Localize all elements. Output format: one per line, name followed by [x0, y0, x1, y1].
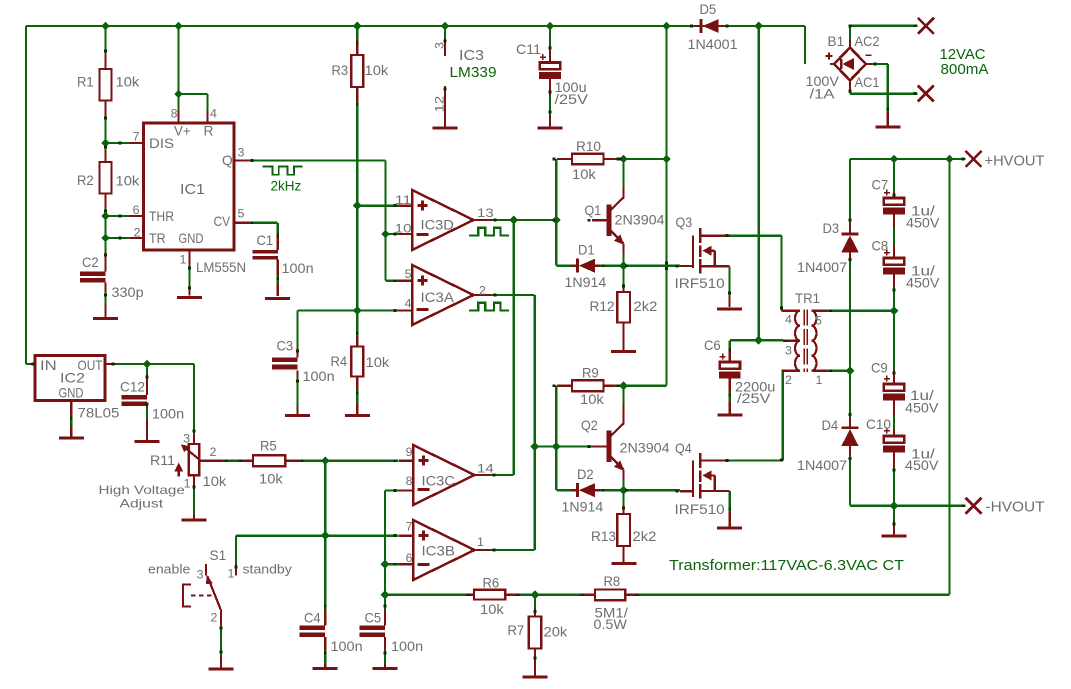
- svg-text:10k: 10k: [580, 392, 604, 407]
- svg-text:IC3D: IC3D: [421, 218, 454, 234]
- svg-text:/25V: /25V: [555, 92, 589, 107]
- svg-text:C2: C2: [82, 255, 99, 270]
- svg-text:/25V: /25V: [737, 391, 771, 406]
- svg-text:100n: 100n: [152, 407, 184, 422]
- svg-text:IRF510: IRF510: [675, 502, 725, 517]
- svg-text:R4: R4: [331, 354, 348, 369]
- svg-text:100n: 100n: [331, 639, 363, 654]
- svg-text:IC3B: IC3B: [422, 544, 455, 560]
- svg-text:7: 7: [133, 130, 140, 144]
- svg-text:standby: standby: [243, 562, 293, 577]
- svg-text:2kHz: 2kHz: [271, 179, 302, 194]
- svg-text:2: 2: [785, 373, 792, 387]
- svg-text:TR: TR: [149, 231, 166, 246]
- svg-text:Transformer:117VAC-6.3VAC CT: Transformer:117VAC-6.3VAC CT: [669, 558, 904, 574]
- svg-text:GND: GND: [179, 231, 204, 246]
- svg-text:R2: R2: [77, 173, 94, 188]
- svg-text:IRF510: IRF510: [675, 276, 725, 291]
- svg-text:12VAC: 12VAC: [940, 47, 986, 63]
- svg-text:Q4: Q4: [675, 441, 692, 456]
- svg-text:3: 3: [238, 146, 245, 160]
- svg-text:B1: B1: [828, 34, 845, 49]
- svg-text:10k: 10k: [572, 167, 596, 182]
- svg-text:LM555N: LM555N: [196, 260, 246, 276]
- svg-text:800mA: 800mA: [941, 62, 989, 78]
- svg-text:10k: 10k: [116, 75, 140, 90]
- svg-text:10: 10: [395, 222, 412, 236]
- svg-text:450V: 450V: [906, 276, 940, 291]
- svg-text:High Voltage: High Voltage: [99, 484, 185, 497]
- svg-text:D4: D4: [822, 418, 839, 433]
- svg-text:R10: R10: [576, 139, 601, 154]
- svg-text:IC1: IC1: [180, 182, 205, 198]
- svg-text:R13: R13: [591, 529, 616, 544]
- svg-text:AC1: AC1: [855, 75, 880, 90]
- svg-text:11: 11: [395, 193, 412, 207]
- svg-text:5: 5: [815, 314, 822, 328]
- svg-text:C11: C11: [516, 42, 541, 57]
- svg-text:-HVOUT: -HVOUT: [986, 500, 1045, 516]
- svg-text:R3: R3: [332, 63, 349, 78]
- svg-text:2k2: 2k2: [634, 299, 658, 314]
- svg-text:IC3C: IC3C: [422, 474, 455, 490]
- svg-text:5: 5: [238, 207, 245, 221]
- svg-text:20k: 20k: [544, 625, 568, 640]
- svg-text:3: 3: [183, 432, 190, 446]
- svg-text:CV: CV: [214, 214, 231, 229]
- svg-text:LM339: LM339: [450, 65, 497, 81]
- svg-text:3: 3: [785, 344, 792, 358]
- svg-text:100n: 100n: [282, 261, 314, 276]
- svg-text:Q: Q: [222, 153, 233, 168]
- svg-text:AC2: AC2: [855, 34, 880, 49]
- svg-text:IC3A: IC3A: [421, 290, 455, 306]
- svg-text:enable: enable: [148, 562, 190, 577]
- svg-text:13: 13: [477, 206, 494, 220]
- svg-text:Adjust: Adjust: [120, 498, 165, 511]
- svg-text:1N4001: 1N4001: [688, 37, 738, 52]
- svg-text:0.5W: 0.5W: [594, 617, 627, 632]
- svg-text:IN: IN: [40, 358, 57, 373]
- svg-text:IC2: IC2: [60, 371, 85, 386]
- svg-text:C1: C1: [257, 233, 274, 248]
- svg-text:DIS: DIS: [149, 136, 174, 151]
- svg-text:C9: C9: [871, 361, 888, 376]
- svg-text:R9: R9: [582, 366, 599, 381]
- svg-text:D1: D1: [578, 243, 595, 258]
- svg-text:C5: C5: [365, 611, 382, 626]
- svg-text:3: 3: [197, 568, 204, 582]
- svg-text:THR: THR: [149, 209, 174, 224]
- svg-text:4: 4: [210, 107, 217, 121]
- svg-text:10k: 10k: [259, 472, 283, 487]
- svg-text:1: 1: [816, 373, 823, 387]
- svg-text:10k: 10k: [116, 174, 140, 189]
- svg-text:1N4007: 1N4007: [797, 458, 847, 473]
- svg-text:2k2: 2k2: [633, 529, 657, 544]
- svg-text:12: 12: [433, 96, 447, 113]
- svg-text:2N3904: 2N3904: [620, 441, 670, 456]
- svg-text:Q2: Q2: [581, 418, 598, 433]
- svg-text:330p: 330p: [112, 285, 144, 300]
- svg-text:R8: R8: [604, 574, 621, 589]
- svg-text:8: 8: [406, 474, 413, 488]
- svg-text:C3: C3: [277, 339, 294, 354]
- svg-text:GND: GND: [59, 386, 84, 401]
- svg-text:1N914: 1N914: [562, 500, 604, 515]
- svg-text:R: R: [204, 124, 214, 139]
- svg-text:9: 9: [406, 445, 413, 459]
- svg-text:6: 6: [133, 203, 140, 217]
- svg-text:4: 4: [405, 297, 412, 311]
- svg-text:450V: 450V: [905, 458, 939, 473]
- svg-text:10k: 10k: [480, 602, 504, 617]
- svg-text:C7: C7: [872, 178, 889, 193]
- svg-text:R1: R1: [77, 75, 94, 90]
- svg-text:IC3: IC3: [459, 48, 484, 64]
- svg-text:+HVOUT: +HVOUT: [985, 154, 1045, 170]
- svg-text:C6: C6: [704, 338, 721, 353]
- svg-text:10k: 10k: [366, 355, 390, 370]
- svg-text:D3: D3: [823, 221, 840, 236]
- svg-text:6: 6: [406, 551, 413, 565]
- svg-text:14: 14: [477, 462, 494, 476]
- svg-text:78L05: 78L05: [78, 406, 120, 422]
- svg-text:Q3: Q3: [676, 215, 693, 230]
- svg-text:1N914: 1N914: [565, 275, 607, 290]
- svg-text:R12: R12: [590, 299, 615, 314]
- svg-text:4: 4: [785, 313, 792, 327]
- svg-text:100n: 100n: [391, 639, 423, 654]
- svg-text:D5: D5: [700, 2, 717, 17]
- svg-text:V+: V+: [174, 124, 191, 139]
- svg-text:R5: R5: [260, 439, 277, 454]
- svg-text:10k: 10k: [203, 474, 227, 489]
- svg-text:8: 8: [171, 107, 178, 121]
- svg-text:2: 2: [210, 445, 217, 459]
- svg-text:3: 3: [433, 42, 447, 49]
- svg-text:450V: 450V: [906, 216, 940, 231]
- svg-text:7: 7: [406, 520, 413, 534]
- svg-text:R6: R6: [483, 576, 500, 591]
- svg-text:2: 2: [134, 226, 141, 240]
- svg-text:Q1: Q1: [585, 203, 602, 218]
- svg-text:1N4007: 1N4007: [797, 260, 847, 275]
- svg-text:TR1: TR1: [795, 291, 820, 306]
- svg-text:1: 1: [180, 253, 187, 267]
- svg-text:2N3904: 2N3904: [615, 213, 665, 228]
- svg-text:C12: C12: [120, 380, 145, 395]
- svg-text:2: 2: [211, 611, 218, 625]
- svg-text:10k: 10k: [365, 63, 389, 78]
- svg-text:C8: C8: [872, 239, 889, 254]
- svg-text:R7: R7: [508, 623, 525, 638]
- svg-text:D2: D2: [577, 467, 594, 482]
- svg-text:S1: S1: [210, 548, 227, 563]
- svg-text:100n: 100n: [303, 369, 335, 384]
- svg-text:R11: R11: [150, 453, 175, 468]
- svg-text:1: 1: [228, 567, 235, 581]
- svg-text:450V: 450V: [905, 401, 939, 416]
- svg-text:5: 5: [405, 267, 412, 281]
- svg-text:1: 1: [477, 535, 484, 549]
- svg-text:C10: C10: [866, 417, 891, 432]
- svg-text:2: 2: [479, 284, 486, 298]
- svg-text:C4: C4: [304, 611, 321, 626]
- svg-text:/1A: /1A: [810, 87, 836, 102]
